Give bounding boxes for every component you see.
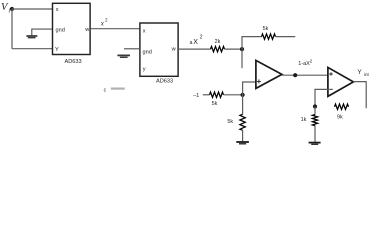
wire U1 gnd pin bbox=[32, 29, 53, 35]
wire node A up to feedback bbox=[242, 37, 262, 50]
multiplier U1 AD633 body bbox=[53, 3, 91, 54]
node label x^2 bbox=[100, 18, 108, 28]
svg-text:1-aX: 1-aX bbox=[298, 61, 310, 67]
wire node C to R5 bbox=[314, 107, 316, 115]
resistor R6 9k feedback floating bbox=[335, 104, 349, 109]
svg-text:9k: 9k bbox=[337, 114, 343, 120]
svg-text:1k: 1k bbox=[301, 117, 307, 123]
svg-text:–1: –1 bbox=[193, 93, 199, 99]
svg-text:AD633: AD633 bbox=[65, 59, 82, 65]
wire U1 w to U2 x bbox=[90, 28, 140, 30]
wire U4 inverting input bbox=[315, 89, 328, 106]
pin plus U4 bbox=[329, 72, 333, 76]
svg-text:c: c bbox=[104, 88, 107, 94]
node label 1-aX^2 bbox=[298, 58, 312, 67]
svg-text:2: 2 bbox=[200, 35, 203, 41]
wire R4 to ground G3 bbox=[242, 130, 244, 141]
resistor R2 5k feedback bbox=[262, 34, 276, 39]
svg-text:2k: 2k bbox=[215, 39, 221, 45]
svg-text:2: 2 bbox=[105, 18, 108, 24]
svg-text:x: x bbox=[56, 7, 59, 13]
node label Yint output bbox=[357, 69, 369, 77]
node label aX^2 bbox=[190, 35, 203, 46]
wire U2 w output bbox=[178, 48, 210, 50]
op-amp U4 body bbox=[328, 67, 354, 96]
resistor R5 1k vertical bbox=[312, 115, 317, 126]
pin minus U4 bbox=[329, 88, 333, 90]
svg-text:y: y bbox=[143, 67, 146, 73]
svg-text:5k: 5k bbox=[263, 26, 269, 32]
wire R1 to node A bbox=[225, 48, 243, 50]
svg-text:5k: 5k bbox=[212, 101, 218, 107]
svg-text:2: 2 bbox=[310, 58, 313, 63]
svg-text:gnd: gnd bbox=[56, 27, 65, 33]
wire to U1 Y pin bbox=[12, 48, 53, 50]
wire R5 to ground G4 bbox=[314, 126, 316, 142]
wire node B down to R4 bbox=[242, 95, 244, 115]
wire gray caption bar bbox=[111, 87, 125, 89]
pin plus U3 bbox=[257, 79, 261, 83]
wire U4 output bbox=[353, 82, 366, 109]
resistor R4 5k to ground vertical bbox=[240, 114, 245, 130]
node Vi input label bbox=[1, 2, 10, 14]
svg-text:w: w bbox=[171, 47, 177, 53]
wire R2 right end dangling bbox=[276, 36, 296, 38]
resistor R3 5k input bbox=[210, 92, 224, 97]
wire R3 to node B bbox=[224, 94, 243, 96]
svg-text:5k: 5k bbox=[227, 119, 233, 125]
svg-text:x: x bbox=[143, 28, 146, 34]
svg-text:a: a bbox=[190, 40, 193, 46]
ground G1 at U1 gnd bbox=[26, 36, 37, 38]
ground G2 at U2 gnd bbox=[117, 55, 130, 57]
junction node C dot bbox=[313, 104, 317, 108]
ground G3 bbox=[236, 142, 249, 144]
svg-text:Y: Y bbox=[55, 47, 59, 53]
junction node B dot bbox=[241, 93, 245, 97]
multiplier U2 AD633 body bbox=[140, 23, 178, 76]
svg-text:AD633: AD633 bbox=[156, 79, 173, 85]
resistor R1 2k bbox=[211, 46, 225, 51]
wire node B to U3 noninverting input bbox=[243, 82, 256, 95]
wire Vi to U1 x pin bbox=[12, 8, 53, 10]
svg-text:X: X bbox=[193, 39, 198, 46]
junction Vi node dot bbox=[10, 7, 14, 11]
wire node A down dangling to U3 inverting input bbox=[241, 49, 243, 68]
wire U3 output bbox=[282, 74, 328, 76]
wire U2 gnd pin bbox=[124, 48, 140, 50]
op-amp U3 body bbox=[256, 60, 282, 88]
wire -1 to R3 bbox=[203, 94, 210, 96]
ground G4 bbox=[309, 143, 321, 145]
svg-text:gnd: gnd bbox=[143, 49, 152, 55]
junction node A dot bbox=[240, 47, 244, 51]
svg-text:Y: Y bbox=[357, 69, 362, 76]
wire Vi down leg bbox=[11, 9, 13, 49]
svg-text:int: int bbox=[364, 72, 370, 77]
junction U3 output dot bbox=[293, 73, 297, 77]
